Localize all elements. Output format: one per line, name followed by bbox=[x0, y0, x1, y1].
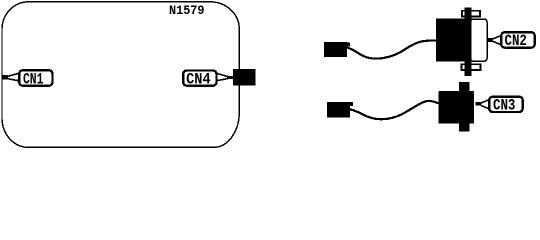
stub to CN4 connector bbox=[227, 76, 234, 79]
jackscrew bottom (CN2) bbox=[462, 64, 481, 70]
connector tab (CN3) bbox=[459, 82, 469, 132]
callout wedge CN4 bbox=[217, 74, 228, 81]
callout box CN2 bbox=[501, 32, 535, 47]
svg-text:N1579: N1579 bbox=[169, 4, 205, 18]
CN3 assembly: small inline connector bbox=[327, 102, 350, 118]
card outline N1579 board bbox=[2, 2, 239, 148]
flange bar (CN2) bbox=[465, 7, 472, 75]
connector CN1 edge tip bbox=[2, 75, 8, 79]
svg-text:CN3: CN3 bbox=[493, 97, 516, 115]
hood body (CN2) bbox=[436, 19, 466, 62]
callout wedge CN2 bbox=[492, 36, 500, 44]
wedge tip CN2 bbox=[487, 38, 492, 42]
svg-text:CN4: CN4 bbox=[186, 71, 211, 89]
svg-text:CN1: CN1 bbox=[23, 70, 44, 88]
svg-text:CN2: CN2 bbox=[504, 32, 527, 50]
connector body (CN3) bbox=[439, 91, 475, 124]
jackscrew top (CN2) bbox=[462, 11, 480, 17]
callout box CN4 bbox=[183, 71, 216, 86]
callout wedge CN1 bbox=[7, 74, 18, 81]
callout box CN3 bbox=[489, 97, 523, 112]
CN2 assembly: small inline connector bbox=[324, 42, 347, 57]
callout box CN1 bbox=[19, 70, 52, 85]
DB connector face (CN2) bbox=[471, 19, 488, 61]
wedge tip CN3 bbox=[475, 102, 481, 106]
cable CN2 bbox=[345, 40, 436, 58]
connector CN4 (black block on card right edge) bbox=[233, 69, 256, 86]
cable CN3 bbox=[350, 101, 439, 119]
callout wedge CN3 bbox=[481, 100, 489, 108]
